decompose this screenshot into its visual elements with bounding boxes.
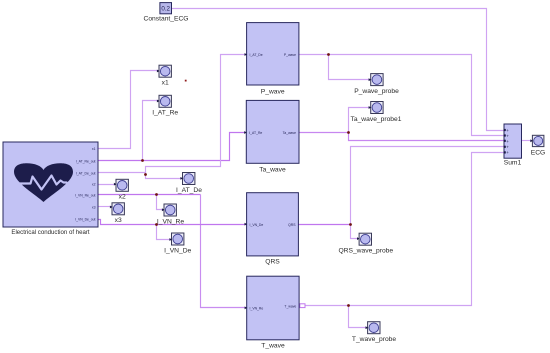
svg-text:I_VN_De: I_VN_De: [164, 247, 191, 254]
svg-text:I_AT_De: I_AT_De: [249, 53, 262, 57]
probe T_wave_probe: [352, 322, 397, 343]
wire: heart I_VN_Re_out to T_wave input: [99, 194, 201, 196]
wire: branch to I_VN_De probe: [157, 225, 172, 240]
wire: branch to I_AT_Re probe: [143, 101, 159, 161]
svg-text:T_wave: T_wave: [261, 343, 285, 350]
subsystem T_wave: [247, 276, 299, 349]
wire: branch to P_wave_probe: [329, 55, 371, 80]
node: T_wave output hollow tag: [300, 304, 305, 308]
svg-text:I_AT_De: I_AT_De: [176, 187, 202, 194]
svg-text:x2: x2: [119, 194, 126, 201]
wire: P_wave output to Sum1 input 2: [299, 55, 505, 136]
wire: Ta_wave output to Sum1 input 3: [299, 133, 505, 141]
svg-text:T_wave: T_wave: [284, 305, 296, 309]
svg-text:I_AT_Re: I_AT_Re: [152, 110, 178, 117]
svg-text:QRS: QRS: [288, 223, 296, 227]
node junction I_AT_De: [144, 173, 147, 176]
wire: QRS output to Sum1 input 4: [299, 224, 351, 226]
wire: heart I_AT_Re_out to Ta_wave input: [99, 133, 247, 161]
node junction QRS: [349, 223, 352, 226]
svg-text:I_AT_Re_out: I_AT_Re_out: [76, 160, 96, 164]
svg-text:Ta_wave: Ta_wave: [283, 131, 296, 135]
svg-text:Constant_ECG: Constant_ECG: [144, 16, 189, 23]
heart ECG trace: [20, 176, 67, 190]
node junction I_AT_Re: [141, 159, 144, 162]
svg-text:P_wave: P_wave: [261, 89, 285, 96]
svg-text:T_wave_probe: T_wave_probe: [352, 336, 397, 343]
svg-text:P_wave: P_wave: [284, 53, 296, 57]
svg-text:Ta_wave: Ta_wave: [259, 167, 286, 174]
probe Ta_wave_probe1: [351, 102, 402, 123]
wire: branch to T_wave_probe: [349, 306, 368, 328]
wire: heart port x1 to probe x1: [99, 71, 159, 149]
svg-text:ECG: ECG: [531, 150, 546, 157]
node junction Ta_wave: [347, 131, 350, 134]
svg-text:I_VN_De: I_VN_De: [249, 223, 263, 227]
probe x1: [159, 65, 171, 86]
svg-text:x3: x3: [92, 206, 96, 210]
subsystem Ta_wave: [246, 100, 299, 173]
probe P_wave_probe: [354, 74, 399, 95]
node junction I_VN_Re: [155, 193, 158, 196]
svg-text:x3: x3: [115, 217, 122, 224]
svg-text:I_VN_De_out: I_VN_De_out: [75, 218, 95, 222]
wire: T_wave output to Sum1 input 5: [305, 153, 505, 306]
svg-text:+: +: [506, 128, 509, 133]
svg-text:+: +: [506, 144, 509, 149]
sum U Sum1: [504, 124, 522, 167]
svg-text:I_VN_Re_out: I_VN_Re_out: [75, 194, 95, 198]
wire: branch to I_AT_De probe: [146, 173, 183, 179]
subsystem QRS: [247, 193, 299, 266]
svg-text:0.2: 0.2: [161, 6, 170, 13]
svg-text:I_AT_De_out: I_AT_De_out: [76, 171, 96, 175]
wire: branch to I_VN_Re probe: [157, 195, 165, 210]
wire: heart x3 to probe x3: [99, 206, 113, 208]
probe I_AT_De: [176, 173, 202, 194]
svg-text:x2: x2: [92, 183, 96, 187]
probe I_VN_Re: [157, 204, 184, 225]
subsystem P_wave: [247, 23, 299, 96]
svg-text:x1: x1: [162, 80, 169, 87]
probe QRS_wave_probe: [338, 233, 393, 254]
wire: heart I_AT_De_out to P_wave input: [99, 55, 247, 173]
probe x2: [116, 179, 128, 200]
constant Constant_ECG: [144, 3, 189, 23]
wire: branch to Ta_wave_probe1: [349, 108, 371, 133]
svg-text:I_AT_Re: I_AT_Re: [249, 131, 262, 135]
svg-text:I_VN_Re: I_VN_Re: [157, 218, 184, 225]
node junction I_VN_De: [155, 223, 158, 226]
svg-text:QRS_wave_probe: QRS_wave_probe: [338, 248, 393, 255]
wire: heart x2 to probe x2: [99, 184, 117, 186]
svg-text:+: +: [506, 150, 509, 155]
subsystem: Electrical conduction of heart: [3, 142, 98, 236]
node junction T_wave: [347, 304, 350, 307]
probe ECG: [531, 135, 546, 156]
wire: branch to QRS_wave_probe: [351, 225, 360, 239]
svg-text:I_VN_Re: I_VN_Re: [249, 307, 263, 311]
wire: Constant_ECG to Sum1 input 1: [172, 9, 505, 131]
node: stray red dot annotation: [185, 80, 187, 82]
node junction P_wave: [327, 53, 330, 56]
probe I_AT_Re: [152, 95, 178, 116]
svg-text:+: +: [506, 133, 509, 138]
svg-text:Electrical conduction of heart: Electrical conduction of heart: [11, 229, 90, 236]
svg-text:QRS: QRS: [265, 259, 280, 266]
svg-text:Sum1: Sum1: [504, 160, 522, 167]
probe x3: [112, 203, 124, 224]
probe I_VN_De: [164, 233, 191, 254]
wire: Sum1 to ECG: [522, 140, 533, 142]
heart icon: [14, 163, 73, 202]
svg-text:Ta_wave_probe1: Ta_wave_probe1: [351, 116, 402, 123]
svg-text:x1: x1: [92, 147, 96, 151]
input arrows: [110, 53, 533, 329]
wire: heart I_VN_De_out to QRS input: [99, 220, 247, 225]
svg-text:P_wave_probe: P_wave_probe: [354, 88, 399, 95]
svg-text:+: +: [506, 139, 509, 144]
